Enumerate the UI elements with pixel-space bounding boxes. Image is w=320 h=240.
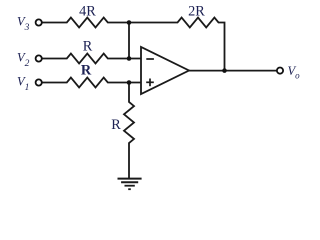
svg-text:R: R: [83, 38, 93, 54]
svg-text:2R: 2R: [188, 4, 205, 20]
svg-text:V1: V1: [17, 75, 29, 94]
svg-text:4R: 4R: [79, 4, 96, 20]
svg-text:R: R: [81, 63, 92, 79]
svg-text:R: R: [111, 117, 121, 133]
svg-text:V3: V3: [17, 15, 30, 34]
svg-text:Vo: Vo: [288, 64, 301, 80]
svg-text:V2: V2: [17, 51, 30, 70]
